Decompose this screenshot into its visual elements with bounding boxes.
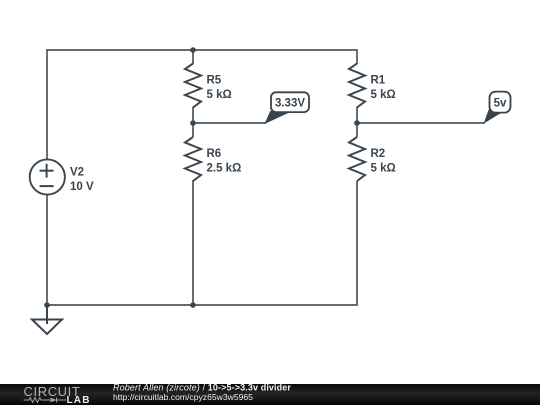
wire R6 bottom lead to bottom rail xyxy=(192,180,194,305)
svg-text:5 kΩ: 5 kΩ xyxy=(371,163,396,175)
resistor R6 xyxy=(185,137,241,181)
resistor R5 xyxy=(185,64,232,108)
ground xyxy=(32,305,62,334)
CircuitLab logo schematic squiggle with resistor and diode xyxy=(24,398,67,403)
svg-text:http://circuitlab.com/cpyz65w3: http://circuitlab.com/cpyz65w3w5965 xyxy=(113,392,253,402)
node junction dot bottom rail / R6 xyxy=(190,302,196,308)
footer bar xyxy=(0,384,540,405)
svg-text:5 kΩ: 5 kΩ xyxy=(371,89,396,101)
node junction dot top rail / R5 xyxy=(190,47,196,53)
wire R5 bottom lead to node A xyxy=(192,107,194,123)
svg-text:LAB: LAB xyxy=(67,395,91,405)
wire right half of top rail and R1 top lead xyxy=(193,50,357,64)
wire right half of bottom rail and R2 bottom lead xyxy=(193,181,357,305)
resistor R1 xyxy=(349,64,396,108)
svg-text:R6: R6 xyxy=(207,148,222,160)
svg-text:5v: 5v xyxy=(494,97,507,109)
resistor R2 xyxy=(349,137,396,181)
node label flag 5v xyxy=(485,92,511,123)
wire V2 bottom lead and left half of bottom rail xyxy=(47,195,193,305)
wire R1 bottom lead to node B xyxy=(356,107,358,123)
node B junction dot R1/R2 xyxy=(354,120,360,126)
voltage source V2 xyxy=(30,159,94,194)
wire node B to 5v flag xyxy=(357,122,485,124)
svg-text:2.5 kΩ: 2.5 kΩ xyxy=(207,163,242,175)
svg-text:10 V: 10 V xyxy=(70,181,94,193)
svg-text:R1: R1 xyxy=(371,75,386,87)
svg-text:5 kΩ: 5 kΩ xyxy=(207,89,232,101)
wire node A to 3.33V flag xyxy=(193,122,266,124)
svg-text:V2: V2 xyxy=(70,167,84,179)
node A junction dot R5/R6 xyxy=(190,120,196,126)
node label flag 3.33V xyxy=(266,92,310,123)
node junction dot ground xyxy=(44,302,50,308)
svg-text:R2: R2 xyxy=(371,148,386,160)
wire R6 top lead xyxy=(192,123,194,137)
svg-text:R5: R5 xyxy=(207,75,222,87)
wire V2 top lead and left half of top rail xyxy=(47,50,193,159)
wire R2 top lead xyxy=(356,123,358,137)
svg-text:3.33V: 3.33V xyxy=(275,98,305,110)
wire R5 top lead xyxy=(192,50,194,64)
